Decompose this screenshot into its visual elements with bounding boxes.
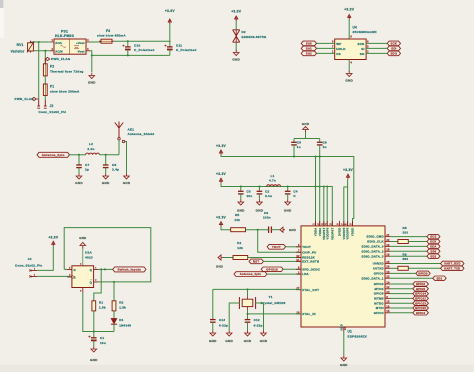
ground below PS1	[88, 73, 96, 85]
svg-text:Switch_Inputs: Switch_Inputs	[118, 268, 142, 272]
junction rail B at C4	[287, 186, 289, 188]
junction rail B at VDDA cross 1	[315, 186, 317, 188]
connector J2 pins	[37, 100, 46, 108]
svg-text:1.8k: 1.8k	[119, 305, 126, 309]
label RV1 reference	[17, 43, 24, 47]
wire C13 to ground	[212, 322, 214, 330]
svg-text:GPIO0: GPIO0	[418, 272, 428, 276]
label R2 reference	[119, 300, 123, 304]
svg-text:-Vout: -Vout	[77, 50, 85, 54]
wire to net label GPIO12	[390, 297, 413, 299]
pin stubs of U2A	[67, 269, 99, 292]
label C13 reference	[219, 318, 225, 322]
resistor R9	[398, 266, 408, 270]
label C9 reference	[264, 211, 268, 215]
label C4 value C	[293, 194, 296, 198]
capacitor C9 series	[269, 227, 272, 233]
label C12 value 6-22p	[254, 324, 263, 328]
svg-text:slow blow 200mA: slow blow 200mA	[50, 90, 80, 94]
wire C10 top	[127, 41, 129, 47]
svg-text:SA1: SA1	[306, 47, 312, 51]
ground below C13	[209, 331, 217, 344]
wire J4 pin1 to +3.3V	[37, 246, 53, 270]
power +3.3V above U4	[344, 8, 355, 20]
capacitor C5	[291, 142, 297, 145]
svg-text:VDD3P3: VDD3P3	[342, 227, 346, 239]
wire C2 top	[258, 187, 260, 192]
svg-text:1.5k: 1.5k	[99, 305, 106, 309]
svg-text:SO: SO	[360, 52, 365, 56]
junction bottom rail at C1	[93, 331, 95, 333]
wire bottom rail of switch section	[83, 293, 114, 332]
fuse F1 body	[43, 84, 47, 96]
wire AC/N from varistor to PS1	[31, 50, 51, 52]
wire AC/L from varistor to PS1	[31, 41, 51, 43]
svg-text:SD0: SD0	[430, 249, 436, 253]
svg-text:4013: 4013	[85, 255, 93, 259]
label F1 value slow blow 200mA	[50, 90, 80, 94]
wire antenna feed down	[118, 140, 120, 155]
pin numbers of U2A	[69, 263, 97, 293]
resistor R2 1.8k	[112, 301, 116, 311]
wire +3.3V down to VDD3P3 pins	[347, 179, 349, 226]
ground above U2A set pin	[79, 236, 86, 266]
label C12 reference	[254, 318, 260, 322]
label U4 reference	[353, 25, 358, 29]
label AE1 reference	[128, 127, 135, 131]
svg-text:R1: R1	[99, 300, 103, 304]
label R8 reference	[403, 226, 407, 230]
net label GPIO13	[413, 301, 429, 305]
net label SD0	[427, 249, 440, 253]
net label SD1 low	[433, 276, 446, 280]
svg-text:13: 13	[386, 301, 390, 304]
svg-text:U2A: U2A	[85, 251, 92, 255]
capacitor C6	[317, 142, 323, 145]
svg-text:GPIO14: GPIO14	[415, 292, 426, 296]
ground left of R1	[218, 255, 223, 260]
wire feedback loop	[64, 228, 151, 282]
wire F2 to F1	[44, 76, 46, 84]
label D1 value 1N4148	[119, 323, 131, 327]
svg-text:SCS: SCS	[430, 235, 436, 239]
label L1 reference	[270, 174, 274, 178]
label C4 reference	[293, 189, 297, 193]
svg-text:C12: C12	[254, 318, 260, 322]
wire rail A	[221, 155, 354, 226]
svg-text:GPIO13: GPIO13	[415, 301, 426, 305]
svg-text:L1: L1	[270, 174, 274, 178]
bottom pin stub of U1	[340, 324, 347, 332]
top pin stubs of U1	[316, 221, 353, 226]
svg-text:D: D	[74, 268, 76, 272]
wire U4 GND pin	[348, 60, 350, 72]
svg-text:MTDI: MTDI	[376, 306, 384, 310]
label PS1 value HLK-PM03	[55, 34, 74, 38]
wire +Vout to fuse F3	[90, 41, 101, 43]
junction at C7	[78, 154, 80, 156]
label U2A reference	[85, 251, 92, 255]
svg-text:Conn_01x02_Pin: Conn_01x02_Pin	[15, 263, 43, 267]
svg-text:GND: GND	[123, 181, 131, 185]
pin names of U2A	[72, 268, 93, 285]
right pin names of U1	[362, 235, 385, 315]
wire R8 to label	[408, 241, 427, 243]
svg-text:GND: GND	[256, 209, 264, 213]
power module PS1 HLK-PM03 body	[54, 39, 86, 54]
svg-text:1u: 1u	[323, 145, 327, 149]
wire C5 bottom to rail	[293, 145, 295, 157]
fuse F2 element line	[44, 64, 46, 76]
crystal Y1 body	[239, 296, 255, 309]
diode D1	[111, 318, 117, 324]
wire SA1 to U4	[317, 47, 335, 49]
ground above C5 C6	[302, 122, 310, 132]
wire L1 to C4	[281, 186, 333, 188]
wire D2 to ground	[235, 43, 237, 51]
svg-text:VDD3P3: VDD3P3	[325, 227, 329, 239]
svg-text:XTAL_IN: XTAL_IN	[302, 312, 316, 316]
wire rail A to VDDA pin 1	[315, 157, 317, 226]
wire C4 top	[287, 187, 289, 192]
net label GPIO5	[413, 287, 429, 291]
svg-text:AC/L: AC/L	[55, 41, 62, 45]
label F3 reference	[106, 29, 110, 33]
junction rail B at C2	[258, 186, 260, 188]
label C10 reference	[134, 43, 140, 47]
wire R2 to D1	[113, 311, 115, 319]
junction Q node	[100, 268, 102, 270]
wire C12 to ground	[247, 322, 249, 330]
junction rail B at C3	[240, 186, 242, 188]
svg-text:UART_RXD: UART_RXD	[444, 262, 461, 266]
junction rail A at VDDA1	[315, 156, 317, 158]
wire R9 to UART_TXD	[408, 267, 440, 269]
svg-text:VDDA: VDDA	[318, 228, 322, 237]
svg-text:GND: GND	[209, 339, 217, 343]
svg-text:C5: C5	[297, 140, 301, 144]
junction at C8	[105, 154, 107, 156]
svg-text:U0TXD: U0TXD	[373, 266, 384, 270]
capacitor C2	[257, 191, 263, 194]
svg-text:SA2: SA2	[306, 52, 312, 56]
wire rail B to VDDPST pin 2	[323, 187, 325, 226]
label L1 value 4.7n	[269, 179, 276, 183]
label D1 reference	[119, 318, 123, 322]
label C3 reference	[247, 189, 251, 193]
svg-text:680: 680	[403, 257, 409, 261]
net label GPIO0	[416, 271, 430, 276]
svg-text:U1: U1	[348, 330, 353, 334]
wire to net label SCS	[390, 236, 427, 238]
svg-text:SDIO_CMD: SDIO_CMD	[367, 235, 384, 239]
flip-flop U2A body	[72, 266, 94, 288]
net label SDI right of U4	[387, 46, 400, 51]
label C10 value C_Polarized	[134, 48, 154, 52]
junction rail A at C5	[293, 156, 295, 158]
wire antenna label to L2	[70, 154, 86, 156]
wire GPIO0 to label	[390, 272, 416, 274]
svg-text:2.2n: 2.2n	[87, 147, 94, 151]
wire C13 column	[212, 289, 214, 319]
label Y1 reference	[269, 295, 273, 299]
ground below C2	[256, 200, 264, 213]
label C8 value 2.4p	[112, 168, 119, 172]
svg-text:+Vout: +Vout	[76, 41, 85, 45]
label D2 reference	[242, 30, 246, 34]
wire GPIO16 to XPD_DCDC	[283, 268, 301, 270]
svg-text:SDIO_DATA_1: SDIO_DATA_1	[362, 276, 384, 280]
svg-text:AE1: AE1	[128, 127, 135, 131]
svg-text:SDIO_CLK: SDIO_CLK	[367, 240, 384, 244]
svg-text:SD1: SD1	[430, 254, 436, 258]
wire C9 to ground flag	[271, 229, 280, 231]
svg-text:GPIO5: GPIO5	[374, 292, 384, 296]
label C6 reference	[323, 140, 327, 144]
label C6 value 1u	[323, 145, 327, 149]
pin numbers of PS1	[51, 39, 89, 51]
label PWR_FLAG text bottom left	[15, 97, 35, 101]
label GND right of C9	[289, 228, 296, 232]
junction loop at R2	[113, 281, 115, 283]
power +3.3V above J4	[48, 235, 59, 246]
wire C11 bottom	[169, 50, 171, 56]
wire to net label GPIO2	[390, 283, 413, 285]
net label GPIO14	[413, 291, 429, 295]
svg-text:+3.3V: +3.3V	[165, 9, 176, 13]
svg-text:Antenna_2pin: Antenna_2pin	[42, 153, 65, 157]
wire U4 to SCK	[366, 42, 387, 44]
net label GPIO15	[413, 306, 429, 310]
label C5 reference	[297, 140, 301, 144]
svg-text:R1: R1	[237, 241, 241, 245]
capacitor C4	[285, 191, 291, 194]
fuse F3 pin stubs	[90, 40, 114, 43]
capacitor C13	[210, 320, 216, 323]
net label GPIO16	[261, 267, 283, 272]
pin names of PS1	[55, 41, 84, 54]
svg-text:Conn_01x02_PH: Conn_01x02_PH	[39, 110, 67, 114]
svg-text:2.4p: 2.4p	[112, 168, 119, 172]
wire C7 top	[78, 155, 80, 165]
label RV1 value Varistor	[11, 49, 25, 53]
svg-text:SDIO_DATA_0: SDIO_DATA_0	[362, 245, 384, 249]
svg-text:slow blow 650mA: slow blow 650mA	[97, 33, 126, 37]
svg-text:14: 14	[386, 281, 390, 284]
junction crystal top	[247, 288, 249, 290]
net label SDO right of U4	[387, 51, 400, 56]
wire L2 to antenna column	[100, 154, 120, 156]
ground below D2	[232, 50, 240, 62]
right pin numbers of U1	[386, 234, 390, 313]
label R1 reference	[237, 241, 241, 245]
capacitor C10 polarized	[122, 45, 130, 50]
net label SA2 left of U4	[301, 51, 316, 56]
svg-text:MTDO: MTDO	[374, 301, 384, 305]
label L2 value 2.2n	[87, 147, 94, 151]
wire C10 bottom	[127, 50, 129, 56]
power +3.3V above D2	[231, 10, 242, 22]
svg-text:+3.3V: +3.3V	[231, 10, 242, 14]
svg-text:20: 20	[386, 244, 390, 247]
svg-text:GND: GND	[260, 339, 268, 343]
label C1 reference	[100, 336, 104, 340]
wire +3.3V to D2	[235, 21, 237, 30]
wire Q to R1	[94, 269, 101, 300]
net label SA1 left of U4	[301, 46, 316, 51]
svg-text:GND: GND	[88, 81, 96, 85]
svg-text:GPIO5: GPIO5	[416, 287, 425, 291]
label R2 value 1.8k	[119, 305, 126, 309]
wire C3 bottom	[240, 194, 242, 200]
svg-text:DVDD: DVDD	[338, 228, 342, 237]
fuse F3 polyfuse body	[101, 39, 112, 43]
svg-text:18: 18	[386, 249, 390, 252]
inductor L2	[86, 153, 100, 155]
label R1 value 12k	[237, 246, 243, 250]
label Y1 value Crystal_GND23	[261, 301, 286, 305]
capacitor C8	[103, 165, 109, 168]
svg-text:R8: R8	[403, 226, 407, 230]
svg-text:21: 21	[386, 234, 390, 237]
svg-text:VDDPST: VDDPST	[330, 227, 334, 240]
wire ground split to C5 C6	[293, 139, 295, 143]
svg-text:15: 15	[386, 271, 390, 274]
svg-text:10u: 10u	[100, 341, 106, 345]
svg-text:C8: C8	[112, 163, 116, 167]
label C11 value C_Polarized	[176, 48, 196, 52]
svg-text:TOUT: TOUT	[302, 245, 311, 249]
svg-text:16: 16	[386, 310, 390, 313]
svg-text:CS: CS	[336, 52, 341, 56]
wire F1 to J2 pin 2	[44, 96, 46, 101]
label D2 value ESD9R3.3ST5G	[242, 35, 267, 39]
wire +3.3V to R5	[221, 227, 231, 230]
wire AC/L down to J2 pin 1	[38, 42, 40, 100]
svg-text:33: 33	[344, 326, 347, 330]
label F2 reference	[50, 64, 54, 68]
power +3.3V at reset RC	[216, 216, 227, 227]
svg-text:HLK-PM03: HLK-PM03	[55, 34, 74, 38]
label J4 value Conn_01x02_Pin	[15, 263, 43, 267]
svg-text:SCK: SCK	[358, 42, 366, 46]
svg-text:UART_TXD: UART_TXD	[444, 266, 460, 270]
label R5 value 10k	[234, 218, 240, 222]
fuse F2 thermal body	[43, 64, 47, 76]
label GND below R1 ground	[216, 265, 223, 269]
svg-text:Antenna_Shield: Antenna_Shield	[128, 132, 155, 136]
net label SCK	[427, 239, 440, 243]
svg-text:C_Polarized: C_Polarized	[134, 48, 154, 52]
svg-text:GND: GND	[79, 236, 86, 240]
label U4 value 25CSM04xxSN	[353, 30, 378, 34]
wire C1 to ground	[93, 340, 95, 346]
net label SA0 left of U4	[301, 41, 316, 46]
wire -Vout to ground rail	[90, 51, 92, 73]
svg-text:10: 10	[386, 305, 390, 308]
svg-text:D1: D1	[119, 318, 123, 322]
net label SDA	[427, 244, 440, 248]
wire U4 to SDO	[366, 52, 387, 54]
svg-text:+3.3V: +3.3V	[216, 216, 227, 220]
svg-text:GPIO2: GPIO2	[374, 282, 384, 286]
net label GPIO2	[413, 282, 429, 286]
wire reset node to CHIP_PU	[258, 230, 301, 253]
svg-text:GPIO0: GPIO0	[374, 272, 384, 276]
svg-text:12: 12	[386, 286, 390, 289]
wire rail B to VDDPST pin	[326, 187, 328, 226]
wire rail B	[221, 183, 332, 226]
wire TOUT to ESP	[286, 246, 301, 248]
svg-text:GND: GND	[302, 122, 310, 126]
ground below antenna shield	[123, 174, 131, 186]
label R8 value 200	[403, 231, 409, 235]
svg-text:C4: C4	[293, 189, 297, 193]
label R5 reference	[235, 213, 239, 217]
junction 3V3 rail at C10	[127, 40, 129, 42]
wire Q output	[99, 268, 113, 270]
svg-text:12k: 12k	[237, 246, 243, 250]
svg-text:GPIO4: GPIO4	[416, 311, 425, 315]
svg-text:U4: U4	[353, 25, 358, 29]
wire D1 to bottom rail	[113, 324, 115, 331]
ground below C12	[244, 331, 252, 344]
svg-text:+3.3V: +3.3V	[48, 235, 59, 239]
svg-text:F2: F2	[50, 64, 54, 68]
wire crystal left pin to ground	[229, 303, 239, 331]
junction reset node	[257, 229, 259, 231]
label C13 value 6-22p	[219, 324, 228, 328]
svg-text:1u: 1u	[297, 145, 301, 149]
svg-text:SD1: SD1	[437, 276, 443, 280]
MCU U1 ESP8266EX body	[301, 226, 385, 327]
svg-text:GPIO4: GPIO4	[374, 311, 384, 315]
svg-text:+3.3V: +3.3V	[216, 172, 227, 176]
label C2 value 0.1u	[265, 194, 272, 198]
svg-text:PWR_FLAG: PWR_FLAG	[51, 57, 71, 61]
resistor R8	[398, 240, 408, 244]
label F3 value slow blow 650mA	[97, 33, 126, 37]
svg-text:Y1: Y1	[269, 295, 273, 299]
svg-text:SCK: SCK	[430, 240, 436, 244]
svg-text:C6: C6	[323, 140, 327, 144]
svg-text:SDA: SDA	[430, 245, 436, 249]
net label SCK right of U4	[387, 41, 400, 46]
net label UART_TXD	[441, 266, 465, 271]
svg-text:XPD_DCDC: XPD_DCDC	[302, 267, 321, 271]
svg-text:+3.3V: +3.3V	[344, 8, 355, 12]
svg-text:VDDPST: VDDPST	[322, 227, 326, 240]
junction rail B at VDDA cross 2	[319, 186, 321, 188]
wire split down	[305, 132, 307, 139]
svg-text:XTAL_OUT: XTAL_OUT	[302, 288, 319, 292]
junction rail A at VDDA2	[319, 156, 321, 158]
svg-text:SDIO_DATA_3: SDIO_DATA_3	[362, 254, 384, 258]
svg-text:Thermal fuse 72deg: Thermal fuse 72deg	[50, 69, 84, 73]
svg-text:GND: GND	[284, 209, 292, 213]
power +3.3V above C11	[165, 9, 176, 24]
wire C11 top	[169, 41, 171, 47]
svg-text:C_Polarized: C_Polarized	[176, 48, 196, 52]
svg-text:GND: GND	[345, 79, 353, 83]
top pin numbers of U1	[313, 223, 353, 225]
label U1 value ESP8266EX	[348, 334, 368, 338]
wire R1 to RES12K	[248, 257, 301, 259]
svg-text:R2: R2	[119, 300, 123, 304]
left pin stubs of U1	[296, 247, 301, 314]
ground below C4	[284, 200, 292, 213]
svg-text:SA0: SA0	[306, 42, 312, 46]
